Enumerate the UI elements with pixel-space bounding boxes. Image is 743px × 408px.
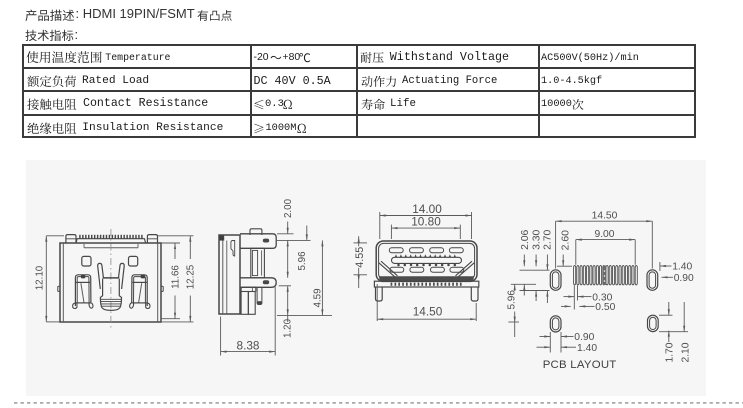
cell: life cycles value bbox=[541, 99, 572, 110]
side view: body bbox=[219, 235, 240, 314]
pcb dimension 1.40 lower-left bbox=[537, 346, 551, 348]
front view: right latch slot bbox=[141, 275, 145, 278]
side view: contact channel bbox=[251, 248, 265, 277]
mating face: flange pin marks bbox=[391, 283, 393, 286]
dimension 5.96 side bbox=[287, 240, 289, 277]
pcb dimensions 1.70 2.10 bbox=[659, 314, 673, 316]
title: bump feature label bbox=[197, 8, 234, 23]
front view: tongue waist bar bbox=[103, 277, 120, 279]
front view: left latch rungs bbox=[76, 281, 90, 283]
dimension 2.00 bbox=[277, 233, 294, 235]
cell: load value bbox=[254, 75, 331, 88]
svg-text:4.59: 4.59 bbox=[312, 288, 323, 307]
side view: upper arm bbox=[240, 234, 276, 249]
side view: lower arm bbox=[240, 278, 276, 288]
svg-text:0.50: 0.50 bbox=[595, 302, 615, 313]
mating face: contact blade bbox=[392, 257, 462, 263]
cell: insulation resistance value bbox=[253, 121, 266, 136]
svg-text:2.60: 2.60 bbox=[561, 230, 572, 250]
cell: actuating force bbox=[361, 74, 399, 89]
svg-text:2.06: 2.06 bbox=[520, 229, 531, 249]
cell: withstand voltage bbox=[360, 50, 386, 65]
svg-text:PCB LAYOUT: PCB LAYOUT bbox=[543, 359, 617, 371]
svg-text:8.38: 8.38 bbox=[237, 338, 260, 352]
side view: mounting foot step bbox=[241, 287, 256, 291]
svg-text:5.96: 5.96 bbox=[506, 290, 517, 310]
svg-text:1.20: 1.20 bbox=[283, 318, 294, 338]
front view: left latch frame bbox=[75, 275, 91, 306]
svg-text:2.70: 2.70 bbox=[543, 229, 554, 249]
mating face: base flange bbox=[374, 281, 478, 287]
cell: rated load bbox=[27, 74, 78, 89]
dimension 4.59 bbox=[279, 285, 291, 287]
front view: center tongue right prong bbox=[119, 263, 125, 289]
svg-text:1.40: 1.40 bbox=[577, 343, 597, 354]
pcb dimension 0.50 bbox=[579, 305, 594, 307]
svg-text:14.50: 14.50 bbox=[592, 211, 618, 222]
svg-text:1.70: 1.70 bbox=[664, 342, 675, 362]
pcb: lower-right pad bbox=[648, 315, 659, 331]
front view: right latch rungs bbox=[133, 281, 147, 283]
spec table frame bbox=[22, 44, 696, 138]
front view: right latch right foot bbox=[146, 303, 150, 309]
front view: left latch brace bbox=[81, 283, 84, 303]
svg-text:2.10: 2.10 bbox=[680, 342, 691, 362]
front view: terminal comb teeth bbox=[79, 235, 80, 239]
mating face: lower vent slots bbox=[390, 267, 404, 272]
mating face: upper vent slots bbox=[389, 248, 403, 253]
front view: tongue hatch lines bbox=[101, 299, 122, 306]
front view: terminal comb base bbox=[76, 239, 146, 243]
svg-text:2.00: 2.00 bbox=[283, 198, 294, 218]
front view: left side bump bbox=[58, 286, 60, 291]
svg-text:4.55: 4.55 bbox=[354, 247, 366, 268]
side view: lower arm slot bbox=[263, 280, 269, 284]
svg-text:0.90: 0.90 bbox=[574, 332, 594, 343]
front view: inner step line bbox=[84, 247, 138, 249]
front view: right latch frame bbox=[132, 275, 148, 306]
cell: life bbox=[361, 97, 387, 112]
pcb dimension 9.00 bbox=[575, 240, 577, 265]
front view: right mounting ear bbox=[147, 235, 157, 243]
side view: body slot bbox=[231, 241, 235, 257]
dimension 12.25 right bbox=[189, 236, 191, 259]
bottom dashed separator bbox=[0, 398, 743, 408]
side view: corner mark bbox=[220, 236, 224, 241]
front view: tongue cup bbox=[100, 279, 121, 311]
mating face: right leg bbox=[471, 287, 478, 301]
title: product name text bbox=[76, 7, 195, 21]
dimension 11.66 right bbox=[158, 235, 194, 237]
front view: left latch left foot bbox=[73, 303, 77, 309]
pcb: lower-left pad bbox=[550, 316, 561, 332]
cell: contact resistance bbox=[27, 97, 78, 112]
svg-text:9.00: 9.00 bbox=[594, 229, 614, 240]
svg-text:10.80: 10.80 bbox=[411, 215, 441, 229]
front view: right side bump bbox=[161, 286, 163, 291]
svg-text:0.90: 0.90 bbox=[674, 273, 694, 284]
pcb dimension 0.90 right bbox=[662, 276, 674, 278]
mating face: upper contacts bbox=[395, 254, 397, 257]
pcb dimension 0.30 bbox=[573, 286, 575, 310]
dimension 1.20 bbox=[287, 286, 289, 322]
mating face: lower contact dots bbox=[397, 264, 400, 267]
pcb dimension 14.50 bbox=[555, 221, 557, 268]
front view: center line bbox=[110, 229, 112, 328]
side view: solder pins bbox=[241, 292, 248, 315]
cell: temperature range bbox=[26, 49, 104, 65]
cell: voltage value bbox=[541, 53, 639, 64]
cell: force value bbox=[541, 76, 602, 87]
front view: right latch brace bbox=[139, 283, 142, 303]
front view: shell body bbox=[60, 243, 161, 322]
dimension 12.10 left bbox=[46, 235, 64, 237]
side view: rear contact pin bbox=[257, 288, 262, 305]
pcb dimension 1.40 right bbox=[659, 262, 661, 271]
front view: left mounting ear bbox=[66, 235, 76, 243]
mating face: outer shell bbox=[376, 241, 477, 281]
mating face: right corner brace bbox=[458, 263, 475, 278]
front view: left latch slot bbox=[81, 275, 85, 278]
side view: upper arm slot bbox=[263, 239, 269, 243]
dimension 14.50 bbox=[376, 284, 378, 321]
svg-text:14.50: 14.50 bbox=[413, 305, 443, 319]
dimension 4.55 bbox=[354, 242, 368, 244]
drawing panel background bbox=[26, 160, 706, 396]
mating face: bottom band bbox=[379, 276, 474, 281]
pcb dimension 0.90 lower-left bbox=[549, 332, 551, 353]
pcb: pin row center mark bbox=[603, 266, 606, 285]
front view: right square hole bbox=[129, 256, 138, 266]
pcb: right mount pad bbox=[647, 270, 658, 291]
cell: temperature value bbox=[254, 52, 269, 63]
front view: left square hole bbox=[82, 256, 91, 266]
subtitle: technical specs label bbox=[25, 28, 75, 43]
side view: top tab bbox=[250, 229, 262, 235]
front view: center tongue left prong bbox=[98, 263, 104, 289]
svg-text:3.30: 3.30 bbox=[532, 229, 543, 249]
mating face: left leg bbox=[376, 287, 383, 301]
svg-text:1.40: 1.40 bbox=[672, 262, 692, 273]
svg-text:11.66: 11.66 bbox=[170, 265, 181, 289]
title: product description label bbox=[25, 8, 76, 23]
dimension 10.80 bbox=[390, 225, 392, 239]
svg-text:5.96: 5.96 bbox=[297, 251, 308, 271]
pcb: pin pads row bbox=[574, 266, 638, 285]
svg-text:12.10: 12.10 bbox=[34, 265, 45, 290]
pcb: left mount pad bbox=[550, 270, 561, 291]
front view: right latch left foot bbox=[130, 303, 134, 308]
dimension 8.38 bottom bbox=[220, 317, 222, 356]
svg-text:12.25: 12.25 bbox=[186, 264, 197, 289]
cell: contact resistance value bbox=[253, 97, 266, 112]
pcb dimension 5.96 bbox=[514, 284, 516, 291]
cell: insulation resistance bbox=[27, 121, 78, 136]
mating face: left corner brace bbox=[379, 263, 396, 278]
pcb dimension 2.60 bbox=[562, 255, 564, 267]
dimension 14.00 bbox=[379, 212, 381, 239]
cell: Temperature bbox=[105, 53, 170, 64]
front view: left latch right foot bbox=[89, 303, 93, 308]
